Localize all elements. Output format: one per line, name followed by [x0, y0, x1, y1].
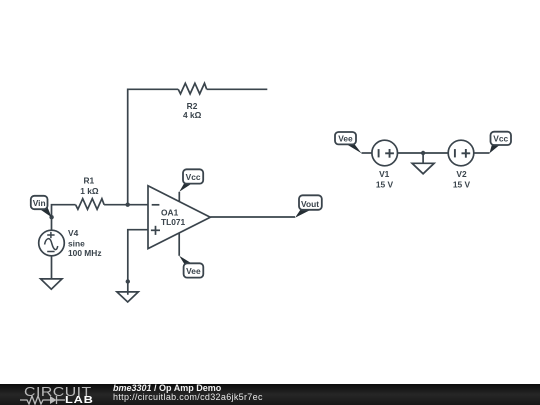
svg-text:V1: V1 — [379, 169, 390, 179]
svg-text:V2: V2 — [456, 169, 467, 179]
svg-text:Vee: Vee — [186, 266, 201, 276]
svg-text:Vcc: Vcc — [493, 134, 508, 144]
svg-text:V4: V4 — [68, 228, 79, 238]
svg-text:Vin: Vin — [33, 198, 46, 208]
svg-text:15 V: 15 V — [376, 180, 394, 190]
svg-text:Vcc: Vcc — [186, 172, 201, 182]
svg-text:15 V: 15 V — [453, 180, 471, 190]
svg-text:TL071: TL071 — [161, 217, 186, 227]
svg-text:1 kΩ: 1 kΩ — [80, 186, 99, 196]
svg-text:R1: R1 — [83, 176, 94, 186]
svg-text:Vout: Vout — [301, 199, 319, 209]
svg-text:Vee: Vee — [338, 134, 353, 144]
svg-text:100 MHz: 100 MHz — [68, 248, 102, 258]
svg-text:4 kΩ: 4 kΩ — [183, 110, 202, 120]
